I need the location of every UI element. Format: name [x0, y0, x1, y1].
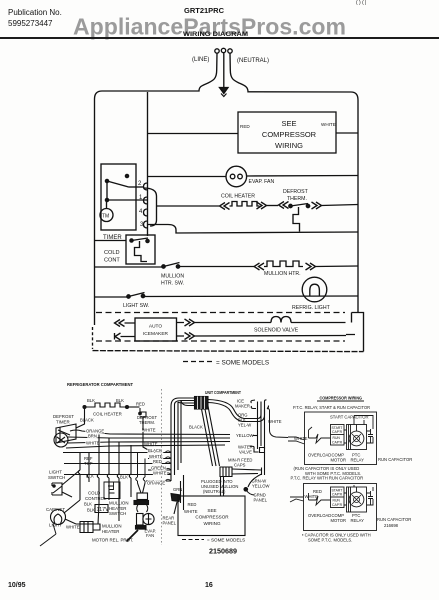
timer wire contact to bus: [129, 186, 144, 188]
svg-text:216698: 216698: [384, 523, 399, 528]
wires into boxes from left: [288, 437, 305, 502]
svg-text:YEL-W: YEL-W: [238, 423, 251, 428]
wire to icemaker: [121, 323, 136, 337]
mullion heater block: [80, 522, 100, 533]
connector arrows defrost right: [312, 202, 322, 209]
svg-text:OVERLOAD: OVERLOAD: [308, 453, 331, 458]
svg-text:LIGHT: LIGHT: [49, 470, 62, 475]
svg-text:CAP'R: CAP'R: [332, 441, 343, 445]
wire heater to defrost therm: [267, 205, 279, 207]
wire light switch to lamp: [143, 295, 358, 298]
svg-text:GRT21PRC: GRT21PRC: [184, 6, 225, 15]
timer contact dot B: [105, 198, 108, 201]
evap fan row: [148, 176, 359, 177]
svg-text:OVERLOAD: OVERLOAD: [308, 513, 331, 518]
svg-text:P.T.C. RELAY WITH RUN CAPACITO: P.T.C. RELAY WITH RUN CAPACITOR: [291, 476, 364, 481]
icemaker connector arrows left top: [115, 320, 125, 327]
see compressor wiring box: [238, 112, 336, 153]
svg-text:CAP'R: CAP'R: [332, 503, 343, 507]
svg-text:MULLION HTR.: MULLION HTR.: [264, 271, 301, 277]
connector arrows defrost left: [279, 202, 289, 209]
wire LINE drop: [95, 54, 218, 326]
svg-text:COLD: COLD: [104, 250, 120, 256]
svg-text:WHITE: WHITE: [142, 428, 156, 433]
svg-text:WHITE: WHITE: [184, 509, 198, 514]
left components verticals: [80, 435, 131, 522]
some models legend lower: [182, 539, 204, 541]
vertical wires icemaker area: [258, 410, 265, 468]
svg-text:COMPRESSOR: COMPRESSOR: [195, 515, 229, 520]
svg-text:BLK: BLK: [87, 398, 95, 403]
svg-text:( ) ( |: ( ) ( |: [356, 0, 366, 6]
svg-text:4: 4: [139, 209, 143, 215]
svg-text:VALVE: VALVE: [239, 450, 252, 455]
svg-text:(NEUTRAL): (NEUTRAL): [203, 489, 226, 494]
terminal 3 wire: [148, 225, 359, 234]
water valve connector end: [254, 447, 265, 453]
svg-text:COIL HEATER: COIL HEATER: [221, 194, 255, 200]
cold control row: [94, 240, 126, 242]
icemaker connector left bottom: [115, 333, 121, 340]
svg-text:SEE: SEE: [207, 508, 216, 513]
box2 start cap: [331, 487, 345, 508]
svg-text:SWITCH: SWITCH: [48, 475, 65, 480]
ground symbol: [220, 88, 229, 94]
svg-text:WIRING: WIRING: [203, 521, 221, 526]
svg-text:BRN: BRN: [88, 433, 97, 438]
plug prong C: [221, 48, 225, 52]
evap fan circle: [143, 513, 154, 524]
coil heater row from second vertical: [157, 205, 220, 207]
terminal bump 3: [144, 221, 148, 228]
timer switch arm: [107, 181, 129, 187]
svg-text:WHITE: WHITE: [153, 470, 167, 475]
dashed some-models box bottom: [96, 340, 345, 342]
svg-text:PANEL: PANEL: [163, 521, 177, 526]
svg-text:REFRIGERATOR COMPARTMENT: REFRIGERATOR COMPARTMENT: [67, 382, 133, 387]
svg-text:MOTOR: MOTOR: [331, 518, 347, 523]
svg-text:SOLENOID VALVE: SOLENOID VALVE: [254, 328, 299, 334]
connector arrows mullion left: [254, 263, 264, 270]
main red bus: [147, 92, 149, 236]
wire mullion to bus: [316, 265, 359, 268]
compartment separator: [161, 389, 163, 545]
wire red to compressor box: [148, 133, 239, 135]
box1 wires: [309, 416, 374, 444]
svg-text:117V: 117V: [97, 507, 110, 513]
svg-text:MULLION: MULLION: [161, 274, 184, 280]
detail box 2: [304, 484, 377, 531]
svg-text:BLK: BLK: [116, 398, 124, 403]
white wire down: [143, 432, 150, 451]
svg-text:AUTO: AUTO: [149, 324, 163, 330]
lower connector plug: [220, 467, 232, 477]
wire heater to red node: [129, 406, 140, 408]
svg-text:(NEUTRAL): (NEUTRAL): [237, 58, 269, 64]
box1 start cap: [331, 425, 345, 446]
header: [0, 0, 439, 39]
svg-text:Publication No.: Publication No.: [8, 8, 62, 17]
mullion switch contacts: [162, 265, 165, 268]
svg-text:DEFROST: DEFROST: [53, 414, 74, 419]
evap fan motor box: [137, 493, 148, 500]
svg-text:BLK: BLK: [86, 474, 94, 479]
wires out of connector to icemaker: [208, 400, 258, 422]
evap fan motor black band: [134, 501, 149, 505]
evap fan feed verticals: [136, 453, 145, 484]
see compressor wiring box lower: [178, 496, 245, 536]
light switch row: [94, 296, 128, 298]
svg-text:RELAY: RELAY: [351, 518, 365, 523]
svg-text:EVAP. FAN: EVAP. FAN: [249, 179, 275, 185]
svg-text:RED: RED: [136, 402, 145, 407]
arrows out bottom: [185, 333, 195, 340]
mullion heater element: [264, 261, 303, 267]
timer contact dot A: [105, 179, 108, 182]
svg-text:BLK: BLK: [87, 508, 95, 513]
unit compartment connector block: [195, 397, 209, 410]
terminal bump 2: [144, 183, 148, 190]
svg-text:MULLION: MULLION: [102, 524, 122, 529]
plug prong R: [228, 49, 232, 53]
svg-text:WIRING DIAGRAM: WIRING DIAGRAM: [183, 31, 248, 38]
connector hops on rows: [165, 451, 171, 481]
svg-text:LIGHT SW.: LIGHT SW.: [123, 303, 149, 309]
svg-text:= SOME MODELS: = SOME MODELS: [216, 360, 269, 367]
box2 ptc outline: [347, 487, 367, 512]
junction and ground curve: [248, 468, 265, 488]
svg-text:16: 16: [205, 582, 213, 589]
svg-text:YELLOW: YELLOW: [236, 433, 254, 438]
evap fan motor: [226, 166, 247, 187]
timer motor lead: [106, 200, 108, 209]
wire NEUTRAL drop: [230, 54, 358, 313]
svg-text:RUN: RUN: [333, 499, 341, 503]
svg-text:UNIT COMPARTMENT: UNIT COMPARTMENT: [205, 390, 241, 395]
svg-text:RED: RED: [240, 124, 250, 129]
wire defrost to right bus: [322, 205, 359, 206]
svg-text:5995273447: 5995273447: [8, 19, 53, 28]
svg-text:REFRIG. LIGHT: REFRIG. LIGHT: [292, 305, 331, 311]
svg-text:PANEL: PANEL: [254, 498, 268, 503]
wire ground drop: [223, 53, 225, 88]
harness bundle horizontals: [70, 430, 230, 435]
connector arrows heater left: [220, 203, 230, 210]
coil heater element lower: [83, 406, 86, 409]
plug prong L: [215, 49, 219, 53]
wires into see compressor box: [181, 475, 224, 510]
mullion heater switch row: [94, 266, 162, 268]
terminal bump 1: [144, 197, 148, 204]
svg-text:ORANGE: ORANGE: [147, 481, 165, 486]
svg-text:WHITE: WHITE: [294, 436, 308, 441]
bends into unit connector: [171, 398, 195, 406]
evap fan motor: V wires: [138, 483, 146, 493]
svg-text:P.T.C. RELAY, START & RUN CAPA: P.T.C. RELAY, START & RUN CAPACITOR: [293, 405, 370, 410]
upper diagram: [93, 48, 364, 366]
svg-text:CAP'R: CAP'R: [332, 493, 343, 497]
svg-text:SOME P.T.C. MODELS.: SOME P.T.C. MODELS.: [308, 538, 352, 543]
svg-text:WHITE: WHITE: [268, 419, 282, 424]
svg-text:BLACK: BLACK: [80, 418, 94, 423]
svg-text:BLK: BLK: [84, 502, 92, 507]
svg-text:ICEMAKER: ICEMAKER: [143, 331, 169, 337]
svg-text:2: 2: [138, 181, 142, 187]
rear panel blob: [171, 494, 181, 502]
svg-text:(LINE): (LINE): [192, 57, 209, 63]
svg-text:WHITE: WHITE: [321, 122, 336, 127]
svg-text:HTR. SW.: HTR. SW.: [161, 281, 184, 287]
wire heater left down to timer: [76, 408, 85, 428]
coil heater element: [230, 202, 260, 207]
svg-text:TOP: TOP: [84, 461, 93, 466]
evap fan motor side rect: [137, 514, 144, 526]
svg-text:COIL HEATER: COIL HEATER: [93, 412, 122, 417]
svg-text:BLK: BLK: [120, 475, 128, 480]
detail box 1: [305, 412, 377, 465]
svg-text:HEATER: HEATER: [102, 529, 119, 534]
box1 ptc outline: [347, 425, 367, 450]
svg-text:CAP'R: CAP'R: [332, 430, 343, 434]
svg-text:RUN: RUN: [333, 436, 341, 440]
connector arrows heater right: [257, 202, 267, 209]
svg-text:MOTOR: MOTOR: [331, 458, 347, 463]
svg-text:RELAY: RELAY: [351, 458, 365, 463]
light switch contacts: [127, 295, 130, 298]
white wire to detail box1: [268, 407, 289, 438]
vertical harness bundle: [171, 400, 181, 481]
117v box: [95, 505, 108, 513]
defrost timer body: [56, 424, 76, 443]
svg-text:THERM.: THERM.: [287, 196, 307, 202]
box2 motor circle: [349, 492, 364, 507]
cold control contacts: [130, 239, 133, 242]
defrost therm contacts: [289, 204, 292, 207]
svg-text:COMPRESSOR WIRING: COMPRESSOR WIRING: [320, 396, 363, 401]
svg-text:WHITE: WHITE: [305, 494, 319, 499]
svg-text:MAKER: MAKER: [235, 404, 250, 409]
svg-text:BLACK: BLACK: [148, 448, 162, 453]
svg-text:FAN: FAN: [146, 533, 154, 538]
lower diagram: [40, 382, 288, 556]
timer motor TM: [100, 209, 113, 222]
svg-text:BLACK: BLACK: [189, 425, 203, 430]
icemaker out wires: [177, 323, 185, 337]
timer terminal dot top: [125, 174, 128, 177]
auto icemaker box: [135, 318, 177, 341]
svg-text:RED: RED: [188, 502, 197, 507]
svg-text:RED: RED: [153, 459, 162, 464]
wire icemaker to solenoid: [195, 323, 347, 337]
svg-text:RUN CAPACITOR: RUN CAPACITOR: [378, 457, 412, 462]
svg-text:10/95: 10/95: [8, 582, 26, 589]
cold control bimetal: [135, 241, 148, 262]
svg-text:WHITE: WHITE: [86, 441, 100, 446]
svg-text:CONT: CONT: [104, 258, 120, 264]
defrost therm body: [293, 207, 300, 232]
svg-text:HEATER: HEATER: [109, 506, 126, 511]
wire to mullion heater: [178, 266, 254, 268]
svg-text:SEE: SEE: [281, 119, 296, 128]
timer box: [101, 164, 136, 230]
terminal bump 4: [144, 209, 148, 216]
svg-text:TIMER: TIMER: [56, 420, 70, 425]
svg-text:CAPS: CAPS: [234, 463, 246, 468]
svg-text:COLD: COLD: [88, 491, 100, 496]
svg-text:YELLOW: YELLOW: [252, 484, 270, 489]
arrows out top: [185, 319, 195, 326]
right bracket of solenoid section: [352, 313, 364, 352]
evap fan black blob: [136, 526, 147, 530]
defrost timer motor: [54, 433, 68, 447]
compressor detail section: [288, 396, 412, 543]
svg-text:= SOME MODELS: = SOME MODELS: [207, 538, 245, 543]
distribution rows to lower-left: [63, 453, 171, 482]
solenoid valve coil: [271, 317, 291, 323]
timer wire pivot down: [107, 181, 148, 200]
svg-text:WHITE: WHITE: [66, 525, 80, 530]
svg-text:MULLION: MULLION: [109, 501, 129, 506]
box2 cap symbol: [368, 491, 373, 505]
defrost therm lower: [140, 408, 146, 430]
second vertical from terminal 2: [144, 188, 157, 226]
svg-text:SWITCH: SWITCH: [109, 511, 126, 516]
wire white from compressor box: [336, 132, 358, 134]
svg-text:TM: TM: [102, 214, 109, 220]
connector bumps on verticals: [78, 470, 131, 478]
legend some models: [183, 361, 212, 363]
box1 cap symbol: [368, 429, 373, 443]
svg-text:DEFROST: DEFROST: [283, 189, 309, 195]
cold control box: [126, 235, 155, 264]
svg-text:WIRING: WIRING: [275, 141, 303, 150]
svg-text:THERM.: THERM.: [139, 420, 155, 425]
box1 motor circle: [349, 431, 364, 446]
dashed some-models box top: [96, 312, 345, 314]
evap fan bracket: [137, 505, 148, 513]
svg-text:COMPRESSOR: COMPRESSOR: [262, 130, 317, 139]
box2 wires: [309, 485, 374, 505]
svg-text:2150689: 2150689: [209, 547, 237, 556]
refrig light bulb: [302, 277, 327, 302]
svg-text:RUN CAPACITOR: RUN CAPACITOR: [377, 517, 411, 522]
connector arrows mullion right: [306, 263, 316, 270]
